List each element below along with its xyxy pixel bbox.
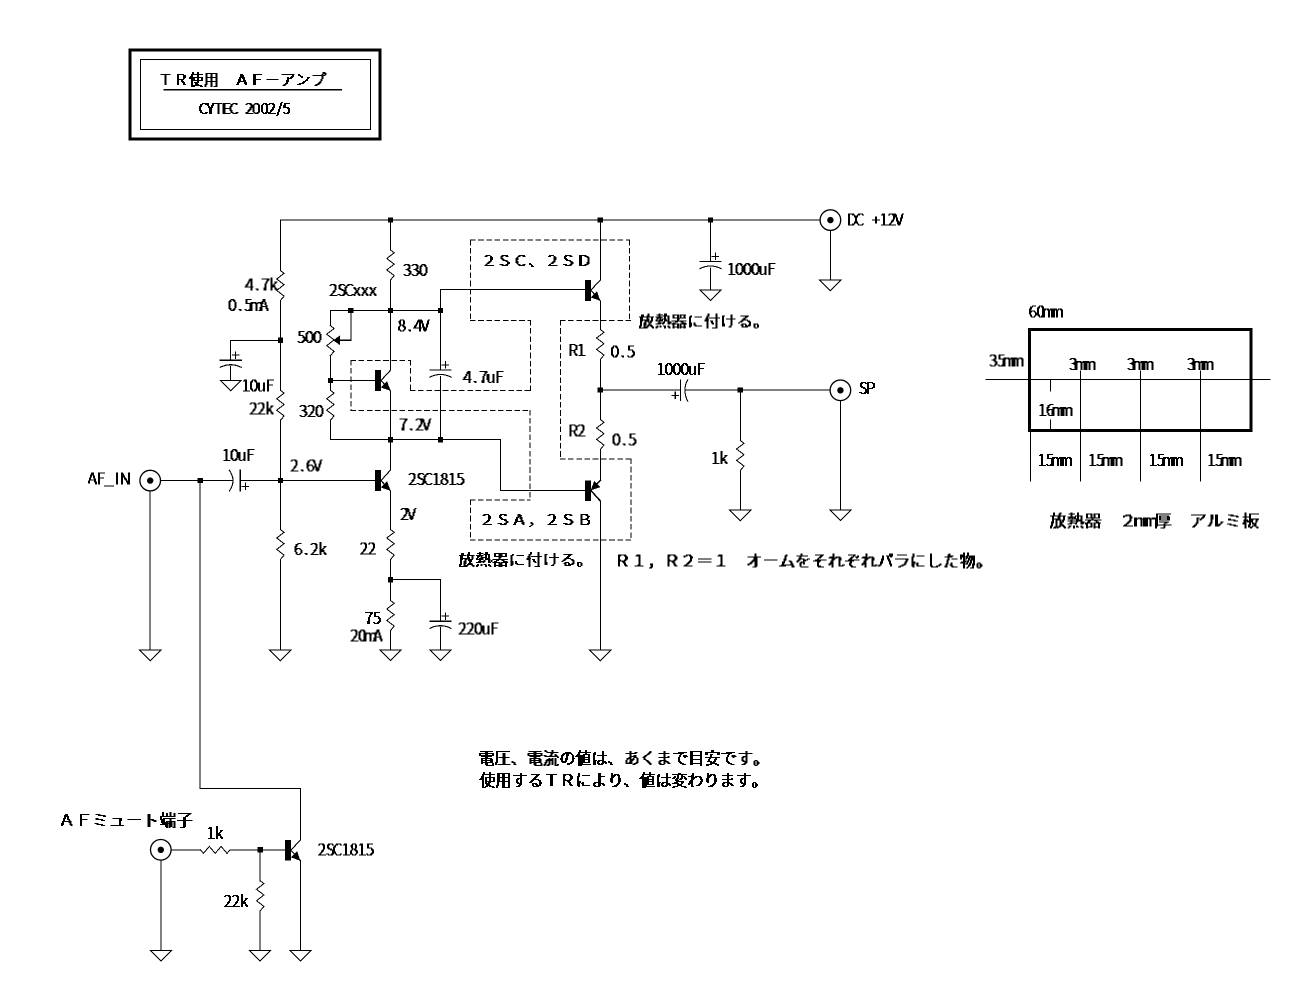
resistor R1 0.5 — [597, 330, 604, 360]
label 7.2V — [400, 419, 431, 430]
wire rail to Q3 — [599, 220, 601, 280]
label 4.7k — [245, 278, 277, 290]
junction 7.2V node — [388, 437, 393, 442]
note heatsink bottom — [460, 553, 583, 567]
resistor 22k — [277, 390, 284, 420]
resistor R2 0.5 — [597, 420, 604, 450]
junction rail/330 — [388, 217, 393, 222]
wire R1 to R2 — [599, 360, 601, 420]
title underline — [164, 89, 342, 91]
label AFミュート端子 — [62, 813, 193, 828]
dimension 16mm — [1040, 405, 1072, 416]
dashed box R1 R2 — [560, 321, 630, 460]
wire 320 to 7.2V wire — [329, 420, 331, 439]
wire 1k to Q5 base — [231, 849, 285, 851]
label 320 — [300, 406, 323, 417]
wire input node to R 6.2k — [279, 481, 281, 530]
wire C 10uF to Q2 base — [240, 480, 375, 482]
label 6.2k — [295, 543, 326, 555]
ground SP — [830, 510, 851, 520]
wire C 1000uF to SP — [686, 389, 830, 391]
label 2V — [401, 509, 416, 520]
label 2SCxxx — [330, 285, 376, 296]
dashed box 2SA 2SB — [470, 459, 631, 540]
wire +12V top rail — [280, 219, 820, 221]
label 1000uF output — [659, 364, 705, 375]
connector SP — [830, 380, 851, 401]
capacitor 1000uF rail — [700, 261, 721, 263]
resistor 4.7k — [277, 271, 284, 301]
note heatsink material — [1051, 513, 1259, 528]
wire 8.4V node — [330, 310, 440, 312]
ground AF_IN — [140, 650, 161, 661]
label 1000uF rail — [729, 264, 775, 275]
resistor 6.2k — [277, 530, 284, 560]
junction wiper/8.4V — [348, 308, 353, 313]
junction mute base node — [258, 847, 263, 852]
title text CYTEC 2002/5 — [200, 103, 290, 116]
capacitor 220uF — [430, 620, 451, 622]
dashed outline driver region — [351, 320, 530, 499]
resistor 330 — [387, 250, 394, 280]
junction rail/1000uF — [708, 217, 713, 222]
wire Q2 emitter to R 22 — [390, 491, 392, 530]
heatsink slot line 1 — [1080, 371, 1082, 481]
label 2SC 2SD — [485, 256, 589, 267]
label 20mA — [351, 630, 382, 641]
wire rail to R 330 — [390, 220, 392, 250]
dimension 15mm 1 — [1040, 455, 1072, 466]
transistor Q2 2SC1815 — [375, 470, 381, 491]
resistor 75 — [387, 601, 394, 631]
dashed box 2SC 2SD — [471, 240, 630, 320]
resistor 1k mute — [201, 846, 230, 853]
label 8.4V — [399, 320, 430, 331]
wire 6.2k to ground — [279, 560, 281, 651]
connector DC +12V — [820, 210, 841, 231]
wire 75 to ground — [390, 631, 392, 651]
transistor Q1 2SCxxx — [375, 370, 381, 391]
wire 22k to input node — [279, 420, 281, 480]
capacitor 10uF input — [229, 470, 233, 491]
wire 330 to Q1 collector — [390, 281, 392, 371]
dimension 15mm 3 — [1151, 455, 1183, 466]
wire emitter node to C 220uF — [391, 580, 441, 622]
ground 22k mute — [250, 951, 271, 962]
label R1 0.5 — [612, 346, 635, 357]
wire 4.7k to 22k — [279, 301, 281, 391]
junction Q1 base tap — [328, 378, 333, 383]
dimension 60mm — [1030, 306, 1063, 317]
junction 4.7uF/8.4V — [438, 308, 443, 313]
dimension 15mm 2 — [1090, 455, 1122, 466]
transistor Q4 2SA 2SB — [585, 480, 591, 501]
dimension 35mm — [990, 355, 1023, 366]
junction output node — [598, 388, 603, 393]
label 22k mute — [225, 895, 248, 907]
ground Q4 — [590, 650, 611, 661]
heatsink plate outline — [1030, 330, 1252, 431]
label 4.7uF — [463, 372, 503, 383]
label 10uF bias — [244, 380, 274, 391]
junction input node — [278, 478, 283, 483]
title block inner border — [141, 60, 371, 130]
label R1 — [570, 345, 585, 356]
note voltages line1 — [480, 751, 760, 766]
ground 220uF — [430, 650, 451, 661]
title text TR使用 AF-アンプ — [161, 73, 326, 87]
resistor 22k mute — [257, 881, 264, 911]
wire C 4.7uF to 7.2V wire — [440, 376, 442, 439]
label 22k — [250, 402, 273, 414]
connector AF mute — [151, 840, 172, 861]
potentiometer 500 — [327, 326, 334, 356]
wire R2 to Q4 emitter — [599, 450, 601, 481]
label 2SC1815 — [409, 474, 464, 485]
wire wiper to 8.4V node — [350, 311, 352, 341]
label 1k — [713, 452, 727, 464]
transistor Q3 2SC 2SD — [585, 280, 591, 301]
wire mute tap riser — [200, 481, 300, 840]
label R2 0.5 — [613, 434, 636, 445]
wire 22 to 75 — [390, 560, 392, 601]
label 75 — [366, 613, 381, 624]
label SP — [860, 383, 875, 394]
capacitor 1000uF output — [679, 380, 681, 400]
junction x390/7.2V — [388, 437, 393, 442]
label AF_IN — [89, 473, 130, 486]
ground Q5 — [290, 951, 311, 962]
label DC +12V — [849, 214, 904, 225]
wire C 10uF to ground — [230, 367, 232, 381]
resistor 22 — [387, 530, 394, 560]
wire DC connector to ground — [829, 231, 831, 281]
wire output node to C 1000uF — [600, 389, 680, 391]
wire bias node to C 10uF — [231, 340, 281, 360]
label 330 — [404, 265, 427, 276]
label 22 — [361, 543, 376, 554]
wire Q3 emitter to R1 — [599, 301, 601, 330]
junction SP/1k — [738, 388, 743, 393]
label 500 — [298, 332, 321, 343]
junction emitter node — [388, 577, 393, 582]
heatsink slot line 2 — [1140, 371, 1142, 481]
connector AF_IN — [140, 470, 161, 491]
wire 7.2V node — [330, 440, 585, 491]
label 2SA 2SB — [483, 515, 590, 527]
note voltages line2 — [480, 773, 758, 788]
heatsink slot line 3 — [1200, 371, 1202, 481]
heatsink left extension line — [1030, 431, 1032, 481]
wire rail to C 1000uF — [710, 220, 712, 262]
wire AF_IN to C 10uF input — [161, 480, 232, 482]
ground DC — [820, 280, 841, 291]
wire 1k to ground — [739, 471, 741, 511]
note R1 R2 parallel — [619, 553, 983, 568]
ground 75 — [380, 650, 401, 661]
wire 8.4V node to VR 500 — [329, 311, 331, 326]
wire 8.4V node to C 4.7uF — [440, 311, 442, 371]
wire Q5 emitter to ground — [299, 861, 301, 951]
dimension 3mm slot2 — [1128, 359, 1153, 370]
wire AF_IN to ground — [149, 491, 151, 650]
wire mute connector to R 1k — [171, 849, 200, 851]
wire mute connector to ground — [160, 860, 162, 950]
capacitor 10uF bias — [220, 359, 241, 361]
label 10uF input — [224, 450, 254, 461]
wire C 1000uF to ground — [710, 268, 712, 290]
wire VR 500 to R 320 — [329, 356, 331, 391]
wire base tap to Q1 base — [330, 380, 375, 382]
label 1k mute — [209, 827, 223, 839]
label R2 — [570, 425, 585, 436]
potentiometer wiper arrow — [333, 335, 340, 345]
dimension 15mm 4 — [1209, 455, 1241, 466]
note heatsink top — [640, 314, 759, 328]
transistor Q5 2SC1815 mute — [285, 840, 291, 861]
capacitor 4.7uF — [430, 369, 451, 371]
wire mute node to R 22k — [259, 850, 261, 881]
wire Q4 collector to ground — [599, 501, 601, 650]
ground 1k — [730, 510, 751, 520]
title block outer border — [130, 50, 380, 139]
junction bias node — [278, 338, 283, 343]
dimension 3mm slot3 — [1188, 359, 1213, 370]
label 220uF — [459, 623, 498, 634]
junction 22k/base node — [278, 478, 283, 483]
label 2SC1815 mute — [319, 844, 374, 855]
wire SP to ground — [839, 401, 841, 511]
junction 4.7uF/7.2V — [438, 437, 443, 442]
resistor 1k speaker — [737, 441, 744, 471]
label 2.6V — [291, 460, 322, 471]
wire C 220uF to ground — [440, 628, 442, 651]
heatsink bend line — [986, 379, 1270, 381]
dimension 3mm slot1 — [1070, 359, 1095, 370]
ground 6.2k — [270, 650, 291, 661]
junction 8.4V node — [388, 308, 393, 313]
wire Q1 emitter to Q2 collector — [390, 391, 392, 470]
ground mute connector — [150, 951, 171, 962]
label 0.5mA — [229, 300, 268, 311]
wire 22k mute to ground — [259, 911, 261, 951]
ground 1000uF rail — [700, 290, 721, 301]
wire rail to R 4.7k — [279, 220, 281, 271]
resistor 320 — [327, 390, 334, 420]
wire junction to R 1k — [739, 390, 741, 440]
junction AF_IN/mute tap — [198, 478, 203, 483]
ground 10uF bias — [220, 380, 241, 391]
wire 8.4V to Q3 base — [441, 290, 585, 311]
junction rail/Q3 collector — [598, 217, 603, 222]
dimension 16mm tick — [1050, 381, 1052, 391]
